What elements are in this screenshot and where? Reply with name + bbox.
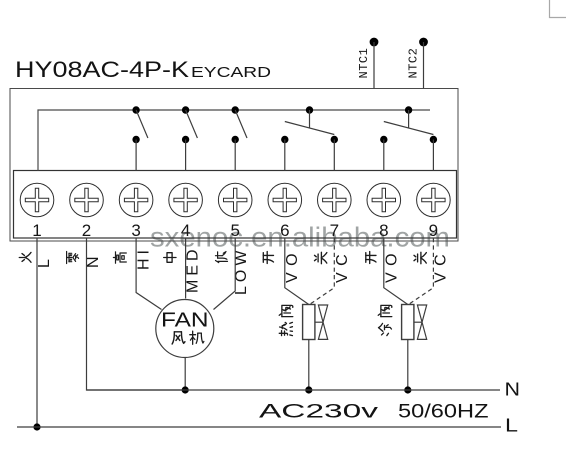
svg-text:NTC1: NTC1 <box>357 48 371 79</box>
svg-text:2: 2 <box>82 221 91 240</box>
wire: N supply line <box>87 389 501 391</box>
label terminal 6: 开 VO <box>263 247 301 283</box>
wire: terminal 5 to fan <box>214 238 236 310</box>
wire: L bus from terminal 1 across switch tops <box>38 110 430 171</box>
svg-text:6: 6 <box>280 221 289 240</box>
svg-text:9: 9 <box>429 221 438 240</box>
svg-text:5: 5 <box>230 221 239 240</box>
switch S1 (HI speed, terminal 3) <box>132 106 147 170</box>
wire: fan to N line <box>184 358 186 390</box>
label terminal 1: 火 L <box>19 252 53 268</box>
label terminal 5: 低 LOW <box>216 247 251 295</box>
frame corner (decorative) <box>550 0 566 18</box>
svg-text:HI: HI <box>136 246 153 270</box>
wire: terminal 3 to fan <box>136 238 161 310</box>
cold valve body <box>378 305 426 340</box>
terminal 7 <box>318 183 352 240</box>
hot valve body <box>279 305 327 340</box>
svg-text:L: L <box>36 259 53 268</box>
terminal 6 <box>268 183 302 240</box>
title HY08AC-4P-KEYCARD <box>15 57 271 82</box>
changeover contact K1 (terminals 6-7) <box>281 106 338 170</box>
label terminal 4: 中 MED <box>164 245 202 293</box>
device outline box <box>10 89 458 242</box>
wire: terminal 1 to L line <box>36 238 38 427</box>
label terminal 7: 关 VC <box>315 248 352 283</box>
NTC2 sensor lead <box>407 38 428 89</box>
svg-text:VO: VO <box>284 247 301 283</box>
terminal 1 <box>20 183 54 240</box>
svg-text:EYCARD: EYCARD <box>191 65 271 81</box>
svg-text:NTC2: NTC2 <box>407 48 421 79</box>
svg-text:VC: VC <box>433 248 450 283</box>
svg-text:L: L <box>505 416 518 436</box>
svg-text:HY08AC-4P-K: HY08AC-4P-K <box>15 57 189 82</box>
wire: terminal 9 to cold valve (VC, dashed) <box>409 238 434 305</box>
terminal 9 <box>417 183 451 240</box>
label terminal 3: 高 HI <box>113 246 152 270</box>
svg-text:3: 3 <box>131 221 140 240</box>
svg-text:8: 8 <box>379 221 388 240</box>
wire: terminal 6 to hot valve (VO, solid) <box>285 238 309 305</box>
svg-text:4: 4 <box>181 221 190 240</box>
wire: cold valve to N line <box>407 339 409 390</box>
wire: terminal 4 to fan <box>185 238 187 299</box>
svg-text:VO: VO <box>384 247 401 283</box>
terminal 8 <box>367 183 401 240</box>
switch S2 (MED speed, terminal 4) <box>182 106 197 170</box>
svg-text:50/60HZ: 50/60HZ <box>398 402 489 423</box>
svg-text:FAN: FAN <box>161 310 209 332</box>
svg-text:MED: MED <box>185 245 202 293</box>
terminal 3 <box>119 183 153 240</box>
wire: hot valve to N line <box>308 339 310 390</box>
label terminal 9: 关 VC <box>414 248 450 283</box>
junction hot valve/N <box>305 386 312 393</box>
terminal strip box <box>14 171 457 239</box>
junction on L line <box>33 423 40 430</box>
switch S3 (LOW speed, terminal 5) <box>232 106 248 170</box>
terminal 2 <box>70 183 104 240</box>
svg-text:N: N <box>85 256 102 268</box>
terminal 4 <box>169 183 203 240</box>
svg-text:N: N <box>505 380 521 400</box>
label terminal 8: 开 VO <box>366 247 401 283</box>
wire: L supply line <box>17 426 501 428</box>
fan motor M <box>156 300 214 358</box>
svg-text:7: 7 <box>330 221 339 240</box>
junction cold valve/N <box>404 386 411 393</box>
svg-text:VC: VC <box>334 248 351 283</box>
wire: terminal 7 to hot valve (VC, dashed) <box>310 238 335 305</box>
label AC230v 50/60HZ <box>259 402 489 423</box>
svg-text:AC230v: AC230v <box>259 402 379 423</box>
junction fan/N <box>182 386 189 393</box>
terminal 5 <box>218 183 252 240</box>
wire: terminal 2 to N line <box>87 238 188 390</box>
svg-text:1: 1 <box>32 221 41 240</box>
NTC1 sensor lead <box>357 38 378 89</box>
label terminal 2: 零 N <box>67 252 102 269</box>
wire: terminal 8 to cold valve (VO, solid) <box>384 238 408 305</box>
changeover contact K2 (terminals 8-9) <box>380 106 437 170</box>
